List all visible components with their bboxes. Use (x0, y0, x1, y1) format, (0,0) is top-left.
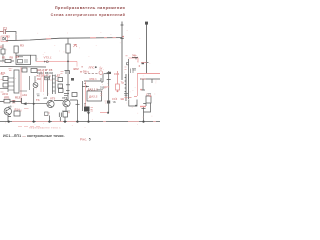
vertical x82.5 (82, 81, 84, 111)
stub pins left of DA1 (8, 78, 14, 90)
dark dashes below transformer (124, 94, 128, 96)
input cell box B (3, 83, 8, 87)
svg-text:R1: R1 (2, 55, 6, 59)
top rail of DA2 stage (84, 78, 101, 81)
svg-text:R14: R14 (15, 108, 21, 112)
stacked box 1 (58, 78, 63, 82)
arrowhead (23, 102, 27, 105)
transformer T1 core (128, 74, 130, 99)
svg-text:ЗУ: ЗУ (99, 66, 103, 70)
svg-text:R3: R3 (20, 44, 24, 48)
svg-text:ДУ2: ДУ2 (104, 85, 110, 89)
bottom bus pink overlay (12, 121, 156, 123)
terminal 2 cap (145, 22, 148, 25)
bus junction dots (8, 121, 145, 123)
svg-text:Тб: Тб (36, 98, 40, 102)
svg-text:об1: об1 (22, 93, 27, 97)
box H below (63, 112, 68, 118)
bottom bus (0, 121, 160, 123)
junction blob R12 row (13, 100, 15, 102)
faint pink dashed line (18, 126, 40, 128)
red circle annotation (99, 71, 103, 75)
svg-text:R2: R2 (6, 35, 10, 39)
wire VT4 to bus (8, 115, 11, 122)
diode VD2 (1, 49, 5, 54)
wire junction x21 (21, 98, 23, 104)
red mark near VT1 (61, 72, 64, 74)
wire second input bus (0, 66, 46, 69)
svg-text:Тр: Тр (121, 80, 125, 84)
svg-text:ж Об с: ж Об с (79, 70, 89, 74)
wire R4 down (67, 53, 69, 100)
terminal 1 tick (120, 25, 124, 39)
dark marks x36-40 (37, 94, 40, 96)
svg-text:ВУ2: ВУ2 (74, 67, 80, 71)
vertical x108.7 (108, 71, 110, 113)
solid segment y73.7 (104, 73, 110, 75)
red marks top right (126, 54, 137, 56)
svg-text:VT2.1: VT2.1 (44, 55, 52, 59)
component marks x130-133 (131, 69, 137, 74)
red marks left edge (1, 69, 12, 92)
dark blob component (71, 78, 74, 81)
red dashes above cup (125, 97, 138, 98)
long vertical x33.7 (33, 88, 35, 122)
dark dashes near C17 (148, 93, 152, 95)
wire R3 to module box (15, 53, 17, 55)
vertical x77.5 (77, 100, 79, 122)
red mark right edge DA2.2 (100, 94, 102, 96)
tick x77.5 (76, 103, 80, 105)
top bus red overlay (46, 38, 116, 39)
wire into DA2 (82, 86, 89, 88)
resistor R1 (5, 59, 11, 62)
arrow wire to VT5 (22, 103, 47, 105)
stacked box 2 (58, 84, 63, 88)
red marks near blob (125, 65, 141, 69)
box VD5 right (146, 96, 151, 103)
blob x108.7 mid (107, 101, 110, 104)
svg-text:R5: R5 (10, 55, 14, 59)
dark square K1 (84, 107, 90, 112)
wire bus to R4 (67, 38, 69, 44)
module box U1 (16, 55, 31, 64)
svg-text:VT5: VT5 (50, 96, 56, 100)
resistor R3 (14, 46, 18, 53)
vertical x128.5 upper (128, 59, 130, 74)
pink blob y106 (140, 106, 146, 108)
svg-text:5: 5 (89, 137, 91, 141)
terminal 1 top (121, 22, 123, 81)
cap C15 drop (142, 79, 146, 90)
node in DA2 (86, 86, 88, 88)
transistor VT4 (4, 108, 11, 115)
svg-text:тб: тб (113, 100, 116, 104)
svg-text:+О: +О (44, 60, 49, 64)
loop wire VD5 to bus (144, 103, 151, 122)
transistor VT6 (63, 100, 70, 107)
wire C9 to bus (49, 116, 51, 122)
svg-text:об: об (44, 96, 48, 100)
pink dashes y80 (50, 79, 58, 82)
red dash near box H (68, 112, 70, 114)
pink vertical x85.5 (85, 81, 87, 108)
svg-text:перекрашено тока с: перекрашено тока с (29, 127, 61, 130)
wire R12 row (0, 101, 22, 103)
transistor VT3 cluster (33, 83, 38, 88)
small box at junction (45, 76, 50, 80)
wire VD2 down (2, 44, 4, 61)
red marks left of blob (105, 101, 107, 103)
arrowhead K1 (87, 112, 90, 114)
red vertical annotation x21 (20, 67, 22, 103)
small box D (31, 69, 37, 73)
dark blob y72 (109, 72, 111, 74)
terminal 1 red dot (122, 36, 124, 38)
terminal 2 tick (145, 61, 149, 63)
wire left edge (0, 78, 8, 92)
svg-text:Преобразователь напряжения: Преобразователь напряжения (55, 6, 125, 10)
svg-text:Рис.: Рис. (80, 137, 87, 141)
pink horizontal y73.5 (137, 73, 160, 75)
transformer bottom cup (129, 100, 137, 107)
red dashes below arrow (21, 109, 29, 112)
tick on x68 wire (66, 84, 70, 86)
svg-text:ИС1...ЛП1 — контрольные точки.: ИС1...ЛП1 — контрольные точки. (3, 134, 65, 138)
wire below VT6 (62, 107, 70, 111)
svg-text:ЛПС: ЛПС (89, 65, 95, 69)
wire box H to bus (64, 117, 66, 122)
transistor VT1 cluster (65, 71, 70, 75)
tall winding box (52, 75, 55, 95)
red dashes on y79 (141, 78, 146, 80)
bracket marks left (127, 63, 129, 65)
red dot on VD5 (150, 95, 152, 97)
svg-text:9В: 9В (121, 97, 125, 101)
pink wire end x108.7 (100, 112, 107, 114)
terminal 2 blob (142, 62, 145, 64)
red marks near R12 (12, 100, 16, 103)
red marks right of K1 (91, 108, 94, 112)
box E right of VT4 (14, 111, 20, 116)
resistor R12 (4, 99, 10, 103)
red box C14 (116, 84, 120, 90)
wire left input row (0, 60, 14, 62)
node dot cup (135, 105, 137, 107)
wire mid verticals (20, 76, 35, 91)
red vertical x117.5 (117, 71, 119, 84)
tick on loop (142, 108, 146, 110)
corner mark x143 (143, 104, 146, 106)
wire collector bus (54, 99, 78, 102)
red vertical x137.5 (137, 74, 139, 96)
svg-text:ДУ1: ДУ1 (1, 71, 6, 75)
small box C (22, 68, 27, 72)
dark dot near ЛПС (95, 66, 97, 68)
red dot below C14 (117, 90, 119, 92)
diode VD3 red (74, 45, 78, 48)
pink verticals x41 x43.5 (41, 71, 44, 93)
svg-text:ДТ: ДТ (57, 74, 61, 78)
svg-text:ДА2.2: ДА2.2 (89, 95, 98, 99)
cap end x108.7 (107, 112, 109, 114)
wire pink mid bus (36, 60, 77, 62)
wire K1 to bus (88, 112, 90, 122)
pink top right wire (129, 58, 147, 63)
svg-text:Д2: Д2 (0, 45, 4, 49)
top bus wire (6, 38, 122, 41)
op-amp DA2.2 box (87, 91, 102, 101)
right bus y79 (140, 78, 160, 80)
svg-text:R12: R12 (15, 96, 21, 100)
svg-text:VT6: VT6 (62, 96, 68, 100)
svg-text:ЗП2.1: ЗП2.1 (89, 77, 97, 81)
small box x44 (45, 112, 49, 116)
input cell box A (3, 77, 8, 81)
box G (72, 93, 77, 97)
diode VD1 (3, 37, 6, 40)
stub x152 (151, 79, 153, 83)
tall IC box DA1 (14, 70, 19, 93)
resistor R4 (66, 44, 70, 53)
short vertical x103 (101, 74, 103, 82)
wire C1 to top bus (6, 32, 16, 41)
dark marks cluster (64, 91, 70, 96)
short line y89.5 (97, 89, 103, 91)
node dot on pink bus (67, 61, 69, 63)
red marks near C9 (45, 113, 50, 116)
capacitor C1 (0, 29, 6, 34)
node dot x33.7 (33, 103, 35, 105)
svg-text:R7: R7 (16, 55, 20, 59)
module U1 internals (18, 57, 29, 63)
svg-text:R9: R9 (37, 77, 41, 81)
annotation box around VD1 (1, 36, 8, 42)
scan noise speckles (2, 31, 156, 128)
stacked box 3 (59, 89, 64, 93)
capacitor C9 (59, 113, 61, 122)
svg-text:об: об (8, 105, 12, 109)
dark marks left (84, 84, 86, 106)
svg-text:С14: С14 (114, 72, 120, 76)
junction marks top x47.5 (45, 77, 50, 79)
dash line y73.7 (85, 73, 100, 75)
svg-text:Схема электрических применений: Схема электрических применений (51, 13, 126, 17)
terminal 2 top (146, 22, 148, 74)
wire pink drop (76, 61, 78, 66)
wire module to node (31, 55, 37, 61)
tick x108.7 (107, 73, 111, 80)
transformer T1 primary (125, 74, 126, 101)
center column vertical x47.5 (47, 78, 49, 96)
transistor VT5 (47, 100, 54, 107)
red dot near C15 (140, 89, 142, 91)
dark segment on it (132, 57, 138, 59)
